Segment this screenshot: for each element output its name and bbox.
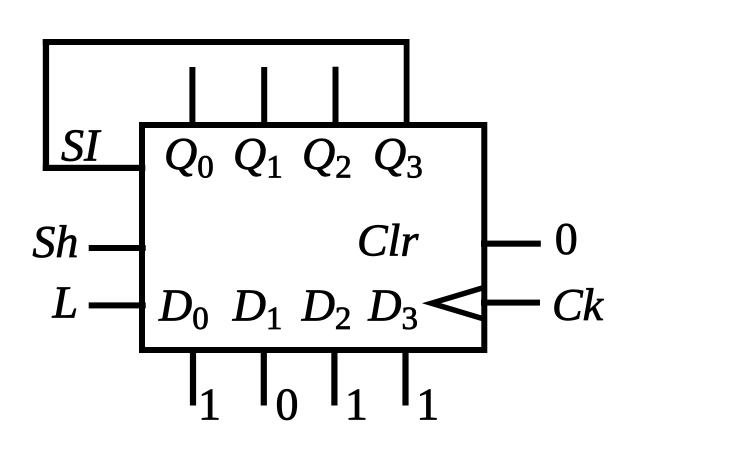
- wire feedback left vertical: [43, 39, 49, 171]
- svg-text:Clr: Clr: [357, 215, 419, 266]
- wire D2 stub: [331, 347, 337, 406]
- wire Q2 stub: [333, 67, 339, 128]
- wire D0 stub: [190, 347, 196, 406]
- svg-text:L: L: [52, 277, 79, 328]
- svg-text:D1: D1: [232, 280, 283, 338]
- svg-text:Ck: Ck: [552, 279, 605, 330]
- svg-text:Q0: Q0: [164, 128, 214, 186]
- wire D1 stub: [261, 347, 267, 406]
- svg-text:Q2: Q2: [302, 128, 352, 186]
- wire feedback right vertical (Q3 to top): [404, 39, 410, 128]
- wire Clr input (to 0): [481, 241, 541, 247]
- svg-text:Q3: Q3: [373, 128, 423, 186]
- wire Q1 stub: [261, 67, 267, 128]
- svg-text:SI: SI: [61, 120, 102, 171]
- svg-text:0: 0: [555, 213, 578, 264]
- wire D3 stub: [402, 347, 408, 406]
- wire Q0 stub: [189, 67, 195, 128]
- svg-text:1: 1: [198, 379, 221, 430]
- svg-text:Sh: Sh: [32, 216, 78, 267]
- clock edge triangle: [432, 288, 485, 320]
- wire Ck input: [481, 300, 540, 306]
- svg-text:Q1: Q1: [233, 128, 283, 186]
- wire Sh input: [89, 245, 146, 251]
- wire feedback top horizontal: [43, 39, 410, 45]
- register box: [142, 125, 484, 350]
- svg-text:D0: D0: [158, 280, 209, 338]
- svg-text:1: 1: [345, 379, 368, 430]
- svg-text:0: 0: [276, 379, 299, 430]
- svg-text:D2: D2: [301, 280, 352, 338]
- svg-text:1: 1: [416, 379, 439, 430]
- wire SI input: [43, 165, 146, 171]
- wire L input: [89, 302, 146, 308]
- svg-text:D3: D3: [367, 280, 418, 338]
